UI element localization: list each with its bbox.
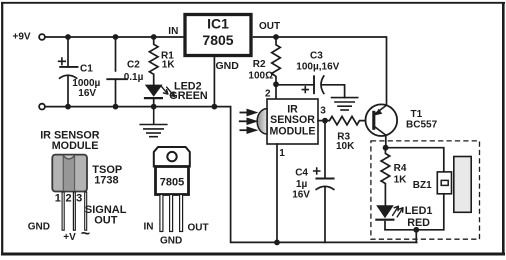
wire IR module pin 1 lead to 0V rail bbox=[276, 144, 278, 242]
svg-text:1K: 1K bbox=[162, 59, 176, 70]
wire junction to 0V rail bbox=[415, 230, 417, 243]
wire C1 positive lead bbox=[67, 37, 69, 67]
wire C4 negative lead to 0V rail bbox=[324, 187, 326, 243]
svg-text:16V: 16V bbox=[78, 88, 96, 99]
mounting hole bbox=[167, 152, 176, 161]
svg-text:10K: 10K bbox=[336, 141, 355, 152]
leg OUT bbox=[180, 195, 183, 232]
wire IR module pin 2 lead bbox=[275, 84, 277, 99]
wire C4 positive lead from pin3 node bbox=[324, 121, 326, 179]
node LED1 cathode / 0V junction bbox=[413, 227, 419, 233]
svg-text:BC557: BC557 bbox=[406, 119, 438, 130]
svg-text:1: 1 bbox=[55, 193, 61, 205]
wire 0V rail (battery minus to ground net) bbox=[45, 107, 417, 243]
svg-text:IN: IN bbox=[144, 222, 154, 233]
svg-text:SENSOR: SENSOR bbox=[270, 114, 315, 126]
svg-text:GND: GND bbox=[28, 222, 50, 233]
capacitor C4 bbox=[316, 178, 333, 180]
node pin3 / R3 / C4 junction bbox=[322, 118, 328, 124]
resistor R4 bbox=[381, 148, 390, 206]
leg GND bbox=[170, 195, 173, 232]
svg-text:C3: C3 bbox=[310, 51, 323, 62]
incoming IR radiation arrows bbox=[239, 110, 256, 133]
buzzer BZ1 bbox=[437, 157, 471, 213]
svg-text:~: ~ bbox=[81, 226, 90, 243]
node R1/+9V rail junction bbox=[151, 34, 157, 40]
wire collector node to buzzer plus bbox=[385, 148, 443, 172]
svg-text:LED1: LED1 bbox=[405, 205, 433, 217]
LED2 (green power indicator) bbox=[144, 85, 175, 107]
IR module lens dome bbox=[257, 109, 267, 134]
svg-text:1738: 1738 bbox=[94, 175, 118, 187]
wire +9V rail to IC1 IN bbox=[45, 36, 183, 38]
node C2/+9V rail junction bbox=[113, 34, 119, 40]
resistor R1 bbox=[149, 37, 158, 85]
node C2 / 0V rail junction bbox=[113, 104, 119, 110]
TSOP leg 2 bbox=[73, 192, 75, 230]
wire IC1 GND pin lead bbox=[213, 57, 215, 106]
heatsink tab bbox=[154, 147, 190, 167]
polarity plus of C3 bbox=[302, 86, 309, 93]
svg-text:BZ1: BZ1 bbox=[413, 180, 432, 191]
svg-text:7805: 7805 bbox=[202, 32, 233, 48]
node pin1 / 0V rail junction bbox=[274, 240, 280, 246]
svg-text:GND: GND bbox=[216, 60, 240, 72]
svg-text:OUT: OUT bbox=[259, 21, 280, 32]
svg-text:2: 2 bbox=[265, 89, 271, 100]
wire IR module pin 3 + resistor R3 to T1 base bbox=[318, 116, 374, 124]
svg-text:7805: 7805 bbox=[160, 177, 184, 189]
polarity plus of C1 bbox=[58, 57, 66, 65]
svg-text:RED: RED bbox=[407, 217, 430, 229]
svg-text:+9V: +9V bbox=[13, 31, 31, 42]
polarity plus of C4 bbox=[313, 167, 321, 175]
svg-text:GREEN: GREEN bbox=[169, 90, 208, 102]
wire C1 negative lead bbox=[67, 76, 69, 107]
transistor T1 BC557 (PNP) bbox=[366, 104, 398, 147]
TSOP leg 1 bbox=[62, 192, 64, 230]
LED1 (red alarm indicator) bbox=[375, 205, 403, 230]
capacitor C2 bbox=[107, 78, 127, 80]
svg-text:GND: GND bbox=[160, 236, 182, 247]
svg-text:3: 3 bbox=[76, 193, 82, 205]
wire T1 collector lead bbox=[385, 135, 387, 148]
svg-text:OUT: OUT bbox=[188, 223, 209, 234]
svg-text:MODULE: MODULE bbox=[52, 140, 99, 152]
TSOP leg 3 bbox=[85, 192, 87, 230]
resistor R2 bbox=[272, 37, 281, 84]
svg-text:C1: C1 bbox=[80, 64, 93, 75]
node IC1 OUT / R2 junction bbox=[273, 34, 279, 40]
leg IN bbox=[160, 195, 163, 232]
svg-text:1K: 1K bbox=[394, 174, 408, 185]
node T1 collector / R4 / buzzer junction bbox=[383, 145, 389, 151]
node IC1 GND / 0V rail junction bbox=[212, 104, 218, 110]
node LED2 / ground junction bbox=[151, 104, 157, 110]
svg-text:100µ,16V: 100µ,16V bbox=[296, 61, 339, 72]
wire node to C3 positive plate bbox=[276, 84, 314, 86]
svg-text:IC1: IC1 bbox=[207, 16, 229, 32]
ground symbol at LED2 cathode node bbox=[139, 107, 167, 137]
svg-text:1: 1 bbox=[279, 148, 285, 159]
svg-text:2: 2 bbox=[66, 193, 72, 205]
IR sensor module (box) bbox=[257, 99, 318, 144]
7805 TO-220 package pictorial bbox=[144, 147, 209, 247]
terminal +9V bbox=[39, 34, 45, 40]
svg-text:R2: R2 bbox=[253, 59, 266, 70]
capacitor C3 bbox=[313, 76, 315, 93]
svg-text:100Ω: 100Ω bbox=[248, 71, 273, 82]
wire C2 bottom lead bbox=[115, 79, 117, 106]
wire C3 negative plate to ground bbox=[322, 85, 344, 98]
svg-text:3: 3 bbox=[320, 106, 326, 117]
node R2 / C3 / pin2 junction bbox=[273, 81, 279, 87]
regulator IC1 7805 (box) bbox=[185, 15, 251, 56]
TSOP body bbox=[52, 155, 87, 192]
package body 7805 bbox=[156, 167, 189, 195]
node C1/+9V rail junction bbox=[65, 34, 71, 40]
svg-text:MODULE: MODULE bbox=[270, 126, 316, 138]
terminal 0V bbox=[39, 104, 45, 110]
TSOP1738 package pictorial bbox=[28, 130, 127, 244]
node C1 / 0V rail junction bbox=[65, 104, 71, 110]
wire IC1 OUT rail to T1 emitter bbox=[253, 37, 387, 106]
ground symbol at C3 bbox=[331, 98, 359, 110]
svg-text:C4: C4 bbox=[295, 168, 308, 179]
svg-text:R4: R4 bbox=[394, 163, 407, 174]
wire C2 top lead bbox=[115, 37, 117, 71]
dashed outline box around indicator/buzzer bbox=[371, 141, 480, 239]
svg-text:C2: C2 bbox=[127, 59, 140, 70]
svg-text:OUT: OUT bbox=[94, 215, 118, 227]
svg-text:+V: +V bbox=[63, 232, 76, 243]
svg-text:0.1µ: 0.1µ bbox=[124, 72, 144, 83]
wire LED1 cathode to buzzer minus bbox=[385, 194, 444, 230]
svg-text:16V: 16V bbox=[292, 190, 310, 201]
capacitor C1 bbox=[60, 66, 77, 68]
svg-text:IN: IN bbox=[168, 26, 178, 37]
